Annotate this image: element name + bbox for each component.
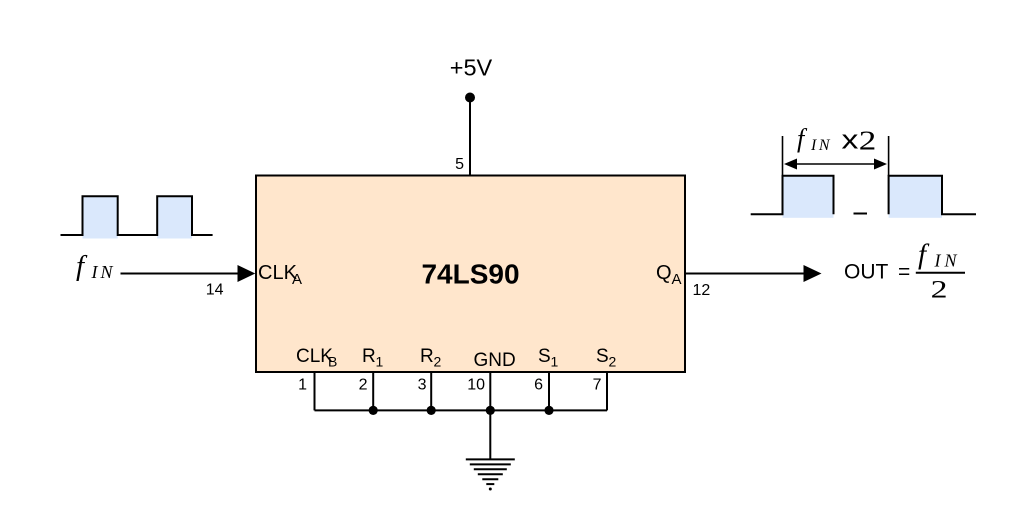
svg-text:7: 7 bbox=[593, 377, 602, 394]
svg-text:R: R bbox=[362, 346, 376, 367]
svg-text:=: = bbox=[898, 261, 910, 284]
svg-text:f: f bbox=[76, 250, 88, 282]
svg-text:6: 6 bbox=[534, 377, 543, 394]
svg-text:10: 10 bbox=[467, 377, 485, 394]
svg-text:2: 2 bbox=[359, 377, 368, 394]
svg-text:f: f bbox=[797, 124, 808, 153]
svg-text:f: f bbox=[918, 239, 930, 271]
svg-text:2: 2 bbox=[931, 277, 948, 304]
svg-text:1: 1 bbox=[376, 354, 384, 370]
svg-text:2: 2 bbox=[434, 354, 442, 370]
svg-text:Q: Q bbox=[656, 262, 672, 284]
svg-text:IN: IN bbox=[810, 137, 832, 154]
svg-text:+5V: +5V bbox=[450, 55, 493, 81]
svg-text:1: 1 bbox=[551, 354, 559, 370]
svg-text:A: A bbox=[292, 271, 302, 288]
svg-text:B: B bbox=[328, 354, 337, 370]
svg-text:S: S bbox=[538, 346, 551, 367]
svg-text:74LS90: 74LS90 bbox=[421, 259, 519, 290]
svg-text:3: 3 bbox=[418, 377, 427, 394]
svg-text:2: 2 bbox=[859, 126, 877, 156]
svg-text:OUT: OUT bbox=[844, 261, 889, 284]
svg-text:IN: IN bbox=[91, 262, 116, 282]
svg-text:GND: GND bbox=[474, 350, 516, 371]
svg-text:2: 2 bbox=[609, 354, 617, 370]
svg-text:S: S bbox=[596, 346, 609, 367]
svg-text:A: A bbox=[672, 271, 682, 288]
svg-text:5: 5 bbox=[455, 156, 464, 173]
svg-text:1: 1 bbox=[298, 377, 307, 394]
svg-text:x: x bbox=[842, 125, 859, 155]
svg-text:IN: IN bbox=[934, 251, 961, 271]
svg-text:14: 14 bbox=[206, 282, 224, 299]
svg-text:R: R bbox=[420, 346, 434, 367]
svg-text:12: 12 bbox=[693, 282, 711, 299]
